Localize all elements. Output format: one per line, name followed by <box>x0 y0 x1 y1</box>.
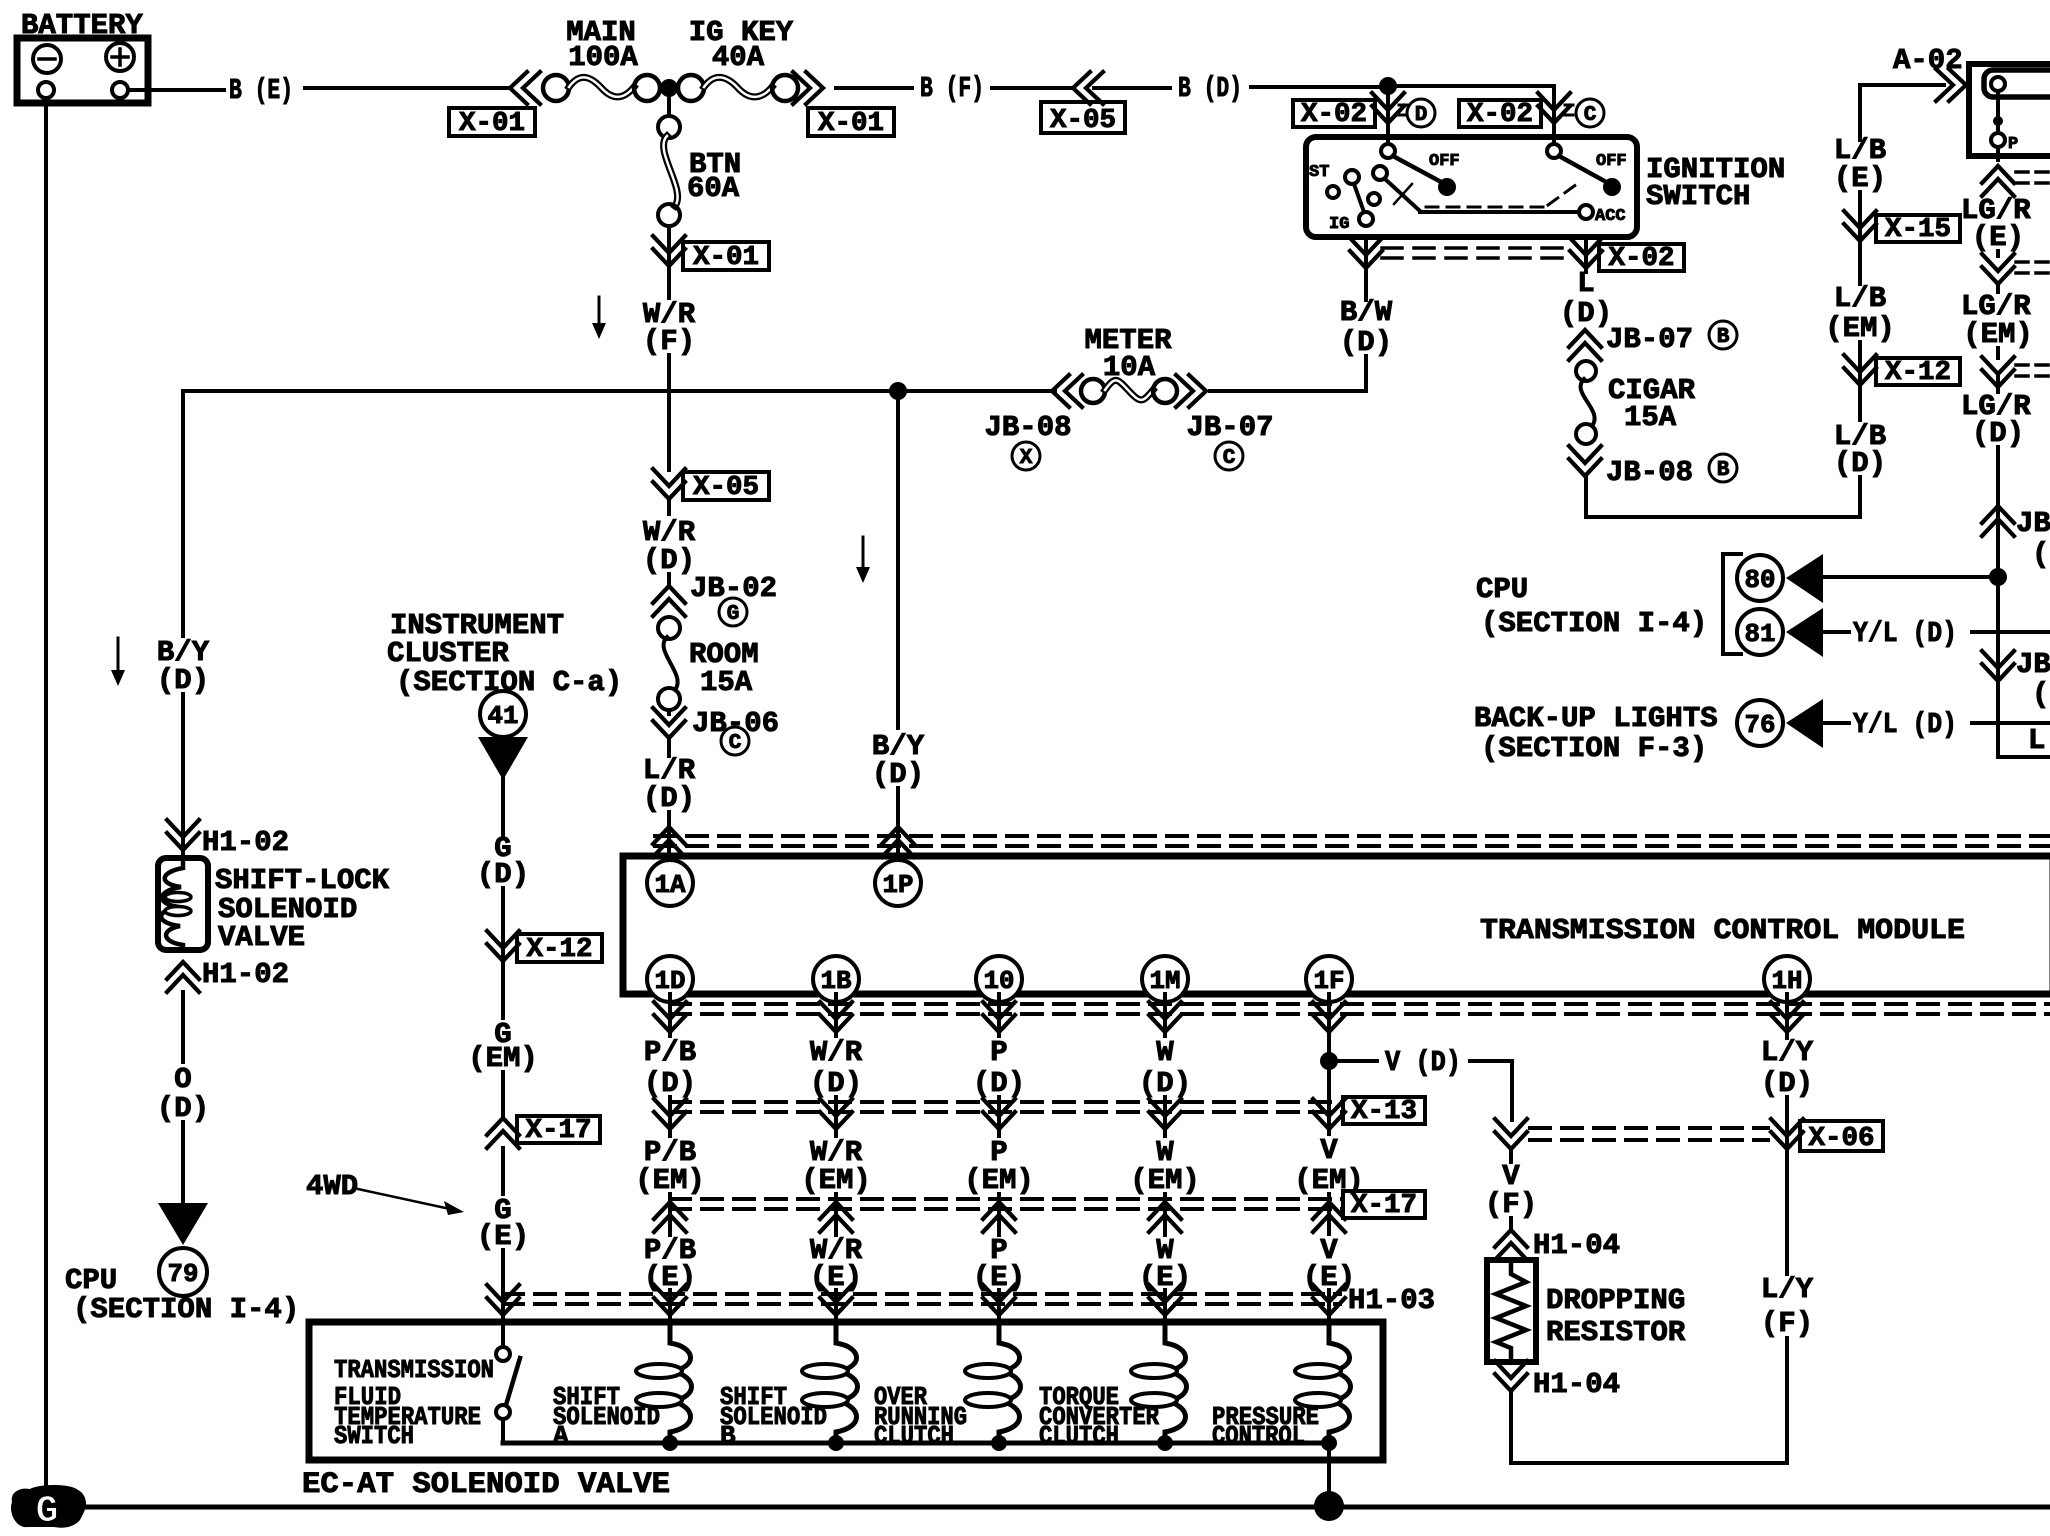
pin 1H <box>1764 956 1810 1002</box>
svg-text:X-02: X-02 <box>1301 100 1367 130</box>
svg-text:ACC: ACC <box>1595 207 1626 226</box>
wire B/Y (D) to pin 1P <box>896 391 900 856</box>
junction solenoid bus x=670 <box>662 1435 678 1451</box>
svg-text:OFF: OFF <box>1429 152 1460 171</box>
svg-text:60A: 60A <box>687 172 740 205</box>
pin 1P <box>875 860 921 906</box>
node L/B (EM) <box>1825 246 1895 345</box>
wire Y/L (D) from pin 76 <box>1823 708 2050 741</box>
arrow into pin 79 <box>158 1203 208 1245</box>
pressure control label <box>1212 1402 1319 1451</box>
svg-text:X-12: X-12 <box>527 935 593 965</box>
node V (D) <box>1385 1046 1461 1079</box>
node B/Y (D) left <box>157 636 210 697</box>
svg-text:CPU: CPU <box>1476 573 1528 606</box>
svg-text:H1-03: H1-03 <box>1348 1284 1435 1317</box>
EC-AT solenoid valve box <box>309 1322 1383 1460</box>
wire Y/L (D) from pin 81 <box>1823 617 2050 650</box>
svg-text:15A: 15A <box>700 666 753 699</box>
junction solenoid bus x=1329 <box>1321 1435 1337 1451</box>
svg-text:L: L <box>2028 724 2045 757</box>
svg-text:(: ( <box>2032 538 2049 571</box>
connector on LG/R (E) <box>1982 251 2050 284</box>
wire V (D) to dropping resistor branch <box>1470 1061 1512 1120</box>
svg-text:ST: ST <box>1309 163 1329 182</box>
svg-text:4WD: 4WD <box>306 1170 358 1203</box>
node B/W (D) <box>1340 296 1393 359</box>
battery <box>17 38 148 103</box>
svg-text:SWITCH: SWITCH <box>334 1421 414 1451</box>
connector A-02 chevron <box>1936 69 1966 101</box>
connector dashes row 4 <box>503 1294 1340 1304</box>
shift solenoid A label <box>553 1382 660 1451</box>
terminal C circled (JB-07) <box>1215 442 1243 470</box>
svg-text:H1-02: H1-02 <box>202 826 289 859</box>
svg-text:X-17: X-17 <box>526 1116 592 1146</box>
junction solenoid bus x=836 <box>828 1435 844 1451</box>
svg-text:X-01: X-01 <box>693 243 759 273</box>
svg-text:C: C <box>729 732 742 755</box>
node A-02 <box>1893 44 1963 77</box>
wire P/B column from TCM <box>635 994 705 1322</box>
ignition switch ACC contact and arm <box>1385 179 1626 226</box>
EC-AT solenoid valve label <box>302 1468 670 1502</box>
node LG/R (E) <box>1961 194 2031 254</box>
CPU section I-4 label <box>65 1264 299 1326</box>
node L/R (D) <box>643 738 696 815</box>
svg-text:1B: 1B <box>821 966 852 996</box>
solenoid common bus wire <box>503 1441 1329 1446</box>
fuse BTN 60A <box>658 88 741 226</box>
pin 10 <box>976 956 1022 1002</box>
svg-text:X-06: X-06 <box>1809 1124 1875 1154</box>
terminal D circled <box>1399 99 1435 127</box>
connector dashes row 2 <box>670 1102 1343 1112</box>
svg-text:1H: 1H <box>1772 966 1803 996</box>
svg-text:W: W <box>1156 1036 1174 1069</box>
junction ground bus <box>1314 1491 1344 1521</box>
4WD note <box>306 1170 464 1215</box>
terminal X circled (JB-08) <box>1012 442 1040 470</box>
connector H1-02 lower <box>167 958 289 992</box>
connector X-12 on G wire <box>487 888 602 965</box>
pin 1A <box>647 860 693 906</box>
connector X-02 (D side) <box>1293 86 1404 144</box>
wire pin 80 to LG/R junction <box>1823 575 1998 579</box>
node B/Y (D) right <box>872 730 925 791</box>
pin 81 <box>1737 609 1783 655</box>
svg-text:B (F): B (F) <box>920 72 984 105</box>
node W/R (D) <box>643 499 696 577</box>
svg-text:79: 79 <box>168 1259 199 1289</box>
wire O to CPU 79 <box>181 1122 185 1205</box>
terminal B circled (JB-08) <box>1709 454 1737 482</box>
svg-text:L/Y: L/Y <box>1761 1036 1814 1069</box>
svg-text:41: 41 <box>488 701 519 731</box>
svg-text:(D): (D) <box>872 758 924 791</box>
terminal P <box>1991 91 2018 160</box>
svg-text:SOLENOID: SOLENOID <box>720 1402 827 1432</box>
wire L/Y (F) down to resistor loop <box>1511 1338 1787 1463</box>
connector X-02 on ACC wire <box>1570 237 1684 274</box>
junction main fuse / BTN fuse <box>660 79 678 97</box>
battery label <box>21 9 143 42</box>
svg-text:(SECTION I-4): (SECTION I-4) <box>73 1293 299 1326</box>
node G (E) <box>477 1148 529 1253</box>
svg-text:OFF: OFF <box>1596 152 1627 171</box>
svg-text:(SECTION F-3): (SECTION F-3) <box>1481 732 1707 765</box>
connector X-17 on V wire <box>1313 1191 1425 1232</box>
fuse METER 10A <box>1081 324 1177 403</box>
connector X-15 <box>1844 192 1960 246</box>
svg-text:1D: 1D <box>655 966 686 996</box>
junction block JB upper right <box>1982 506 2050 571</box>
flow arrow W/R <box>592 297 606 339</box>
ignition switch ST contact <box>1309 163 1387 205</box>
connector X-01 on BTN wire <box>653 226 769 273</box>
svg-text:BACK-UP LIGHTS: BACK-UP LIGHTS <box>1474 702 1718 735</box>
svg-text:A: A <box>553 1421 569 1451</box>
svg-text:G: G <box>727 603 740 626</box>
svg-text:D: D <box>1415 104 1428 127</box>
svg-text:X-01: X-01 <box>459 109 525 139</box>
svg-text:B: B <box>1717 459 1730 482</box>
svg-text:X-15: X-15 <box>1885 215 1951 245</box>
junction above ignition switch <box>1379 77 1554 95</box>
ignition switch pole C to OFF <box>1547 144 1627 196</box>
svg-text:H1-02: H1-02 <box>202 958 289 991</box>
svg-text:DROPPING: DROPPING <box>1546 1284 1685 1317</box>
shift-lock solenoid valve <box>158 858 208 950</box>
wire IG terminal B/W (D) <box>1350 237 1382 391</box>
svg-text:TRANSMISSION: TRANSMISSION <box>334 1355 494 1385</box>
fuse ROOM 15A <box>658 617 759 710</box>
svg-text:76: 76 <box>1745 710 1776 740</box>
connector dashes row 3 <box>670 1199 1343 1209</box>
svg-text:V: V <box>1320 1134 1338 1167</box>
torque converter clutch coil <box>1131 1322 1187 1443</box>
node V (E) <box>1303 1234 1355 1294</box>
svg-text:X-02: X-02 <box>1467 100 1533 130</box>
wire G into EC-AT box <box>487 1250 519 1322</box>
svg-text:L: L <box>1577 267 1594 300</box>
svg-text:SOLENOID: SOLENOID <box>553 1402 660 1432</box>
svg-text:C: C <box>1584 104 1597 127</box>
ground G symbol <box>11 1485 86 1533</box>
wire horizontal bus to meter fuse <box>183 389 1366 393</box>
connector H1-02 upper <box>167 694 289 859</box>
connector H1-03 <box>1313 1284 1435 1322</box>
svg-text:G: G <box>36 1490 59 1533</box>
node L/Y (F) <box>1761 1150 1814 1340</box>
connector on V (F) branch <box>1495 1119 1527 1149</box>
pin 80 <box>1737 555 1783 601</box>
pressure control coil <box>1295 1322 1351 1443</box>
svg-text:JB-08: JB-08 <box>984 411 1071 444</box>
svg-text:P: P <box>990 1036 1007 1069</box>
shift solenoid B label <box>720 1382 827 1451</box>
svg-text:(D): (D) <box>1560 297 1612 330</box>
connector into TCM pin 1P <box>882 827 914 857</box>
junction block JB-02 G <box>653 572 777 616</box>
svg-text:JB-07: JB-07 <box>1606 323 1693 356</box>
connector dashes above TCM <box>655 836 2050 846</box>
node G (EM) <box>468 962 538 1075</box>
shift-lock solenoid valve label <box>215 864 390 954</box>
connector dashes X-06 row <box>1530 1128 1768 1140</box>
svg-text:B/W: B/W <box>1340 296 1393 329</box>
node B (E) <box>229 74 293 107</box>
svg-text:EC-AT SOLENOID VALVE: EC-AT SOLENOID VALVE <box>302 1468 670 1502</box>
svg-text:X-17: X-17 <box>1351 1191 1417 1221</box>
ground bus wire <box>80 1505 2050 1510</box>
instrument cluster label <box>387 609 622 699</box>
node L/B (D) <box>1834 390 1886 480</box>
wire G (D) <box>477 778 529 891</box>
wire battery negative to ground G <box>44 98 48 1490</box>
svg-text:JB-02: JB-02 <box>690 572 777 605</box>
connector X-01 on B(E) wire <box>449 72 540 139</box>
connector on LG/R (EM) <box>1982 348 2050 387</box>
wire B(D) <box>1094 87 1388 88</box>
svg-text:L/Y: L/Y <box>1761 1273 1814 1306</box>
svg-text:Y/L (D): Y/L (D) <box>1853 617 1957 650</box>
svg-text:(: ( <box>2032 678 2049 711</box>
svg-text:10: 10 <box>984 966 1015 996</box>
wire B(F) <box>836 86 1070 90</box>
connector H1-04 lower <box>1495 1361 1620 1401</box>
flow arrow B/Y <box>856 537 870 583</box>
arrow into pin 80 <box>1786 554 1823 603</box>
node LG/R (EM) <box>1961 284 2033 351</box>
svg-text:X-05: X-05 <box>693 473 759 503</box>
back-up lights label <box>1474 702 1718 765</box>
svg-text:X: X <box>1020 447 1033 470</box>
svg-text:40A: 40A <box>712 41 765 74</box>
connector X-01 right of IG KEY fuse <box>793 72 894 139</box>
transmission control module box <box>623 856 2050 994</box>
junction B/Y column <box>889 382 907 400</box>
wire LG/R exits right <box>1998 724 2050 757</box>
svg-text:X-01: X-01 <box>818 109 884 139</box>
svg-text:JB: JB <box>2016 648 2050 681</box>
connector dashes row 1 below TCM <box>670 1004 2050 1014</box>
dropping resistor label <box>1546 1284 1686 1349</box>
node O (D) <box>157 992 209 1125</box>
svg-text:P/B: P/B <box>644 1036 696 1069</box>
pin 1B <box>813 956 859 1002</box>
junction block JB lower right <box>1982 648 2050 711</box>
wire V column from pin 1F <box>1313 994 1345 1134</box>
CPU label <box>1476 573 1707 640</box>
svg-text:X-13: X-13 <box>1351 1097 1417 1127</box>
junction V (D) <box>1320 1052 1377 1070</box>
svg-text:B: B <box>1717 326 1730 349</box>
arrow into pin 76 <box>1786 699 1823 748</box>
svg-text:CLUTCH: CLUTCH <box>1039 1421 1119 1451</box>
over running clutch coil <box>965 1322 1021 1443</box>
svg-text:X-02: X-02 <box>1609 244 1675 274</box>
wire P column from TCM <box>964 994 1034 1322</box>
svg-text:P: P <box>2008 135 2018 154</box>
fuse CIGAR 15A <box>1576 361 1696 444</box>
svg-text:H1-04: H1-04 <box>1533 1229 1620 1262</box>
svg-text:(SECTION I-4): (SECTION I-4) <box>1481 607 1707 640</box>
svg-text:X-05: X-05 <box>1050 106 1116 136</box>
pin 1M <box>1142 956 1188 1002</box>
svg-text:TRANSMISSION CONTROL MODULE: TRANSMISSION CONTROL MODULE <box>1480 914 1965 947</box>
shift solenoid A coil <box>636 1322 692 1443</box>
connector X-13 <box>1313 1097 1425 1129</box>
component box A-02 (top right) <box>1969 64 2050 156</box>
transmission fluid temperature switch <box>496 1322 520 1443</box>
ignition switch pole D to OFF <box>1381 144 1460 196</box>
svg-text:X-12: X-12 <box>1885 358 1951 388</box>
fuse MAIN 100A <box>543 16 660 101</box>
wire resistor to L/Y loop <box>1509 1391 1513 1463</box>
node B (D) <box>1178 72 1242 105</box>
arrow from pin 41 <box>478 737 528 780</box>
svg-text:1A: 1A <box>655 870 686 900</box>
wire L/Y column from pin 1H <box>1761 994 1814 1150</box>
torque converter clutch label <box>1039 1382 1159 1451</box>
node LG/R (D) <box>1961 376 2031 450</box>
svg-text:100A: 100A <box>568 41 638 74</box>
junction block JB-08 X <box>984 375 1082 444</box>
wire cigar fuse to L/B column <box>1586 477 1860 517</box>
svg-text:80: 80 <box>1745 565 1776 595</box>
svg-text:W/R: W/R <box>810 1036 863 1069</box>
svg-text:Y/L (D): Y/L (D) <box>1853 708 1957 741</box>
svg-text:B (E): B (E) <box>229 74 293 107</box>
svg-text:CONTROL: CONTROL <box>1212 1421 1305 1451</box>
junction block JB-07 C <box>1176 375 1274 444</box>
connector X-17 on G wire <box>487 1072 600 1148</box>
node B (F) <box>920 72 984 105</box>
ignition switch IG contact <box>1329 184 1373 234</box>
svg-text:IG: IG <box>1329 215 1349 234</box>
connector X-05 on W/R wire <box>653 469 769 503</box>
pin 1F <box>1306 956 1352 1002</box>
dropping resistor <box>1487 1260 1536 1362</box>
connector dashes under ignition switch <box>1382 248 1570 258</box>
wire pressure control to ground bus <box>1327 1443 1331 1507</box>
wire A-02 horizontal <box>1860 85 1944 140</box>
transmission control module label <box>1480 914 1965 947</box>
svg-text:(D): (D) <box>1340 326 1392 359</box>
svg-text:C: C <box>1223 447 1236 470</box>
connector X-05 on B wire <box>1041 72 1125 136</box>
svg-text:B: B <box>720 1421 736 1451</box>
wire W/R column from TCM <box>801 994 871 1322</box>
shift solenoid B coil <box>802 1322 858 1443</box>
svg-text:JB-08: JB-08 <box>1606 456 1693 489</box>
terminal G circled (JB-02) <box>719 598 747 626</box>
svg-text:1P: 1P <box>883 870 914 900</box>
node W/R (F) <box>643 268 696 358</box>
pin 76 <box>1737 700 1783 746</box>
node V (EM) <box>1294 1134 1364 1234</box>
wire battery positive B(E) <box>128 88 508 90</box>
junction solenoid bus x=1165 <box>1157 1435 1173 1451</box>
connector H1-04 upper <box>1495 1218 1620 1262</box>
wire B/Y (D) left column <box>181 391 185 636</box>
svg-text:(D): (D) <box>1834 447 1886 480</box>
connector X-06 <box>1771 1119 1883 1154</box>
CPU connector bracket <box>1723 554 1741 654</box>
svg-text:(F): (F) <box>1761 1307 1813 1340</box>
pin 79 <box>159 1248 207 1296</box>
svg-text:V (D): V (D) <box>1385 1046 1461 1079</box>
connector X-02 (C side) <box>1459 86 1570 144</box>
pin 41 <box>480 691 526 737</box>
ignition switch label <box>1646 153 1785 213</box>
svg-text:JB-07: JB-07 <box>1186 411 1273 444</box>
svg-text:1M: 1M <box>1150 966 1181 996</box>
svg-text:CLUTCH: CLUTCH <box>874 1421 954 1451</box>
junction LG/R with CPU 80 wire <box>1989 568 2007 586</box>
connector into TCM pin 1A <box>653 812 685 857</box>
fuse IG KEY 40A <box>678 16 798 101</box>
node L (D) <box>1560 267 1612 330</box>
svg-text:RESISTOR: RESISTOR <box>1546 1316 1686 1349</box>
svg-text:JB: JB <box>2016 507 2050 540</box>
junction solenoid bus x=999 <box>991 1435 1007 1451</box>
transmission fluid temperature switch label <box>334 1355 494 1451</box>
node V (F) <box>1485 1149 1537 1221</box>
svg-text:1F: 1F <box>1314 966 1345 996</box>
svg-text:L/B: L/B <box>1834 282 1886 315</box>
arrow into pin 81 <box>1786 608 1823 657</box>
node L/B (E) <box>1834 134 1886 195</box>
svg-text:H1-04: H1-04 <box>1533 1368 1620 1401</box>
wire W/R crossing meter bus <box>667 355 671 470</box>
svg-text:81: 81 <box>1745 619 1776 649</box>
over running clutch label <box>874 1382 967 1451</box>
flow arrow B/Y left <box>111 638 125 686</box>
terminal C circled <box>1565 99 1604 127</box>
terminal C circled (JB-06) <box>721 727 749 755</box>
junction block JB-07 B <box>1569 323 1693 360</box>
connector below A-02 box <box>1982 166 2050 196</box>
svg-text:VALVE: VALVE <box>218 921 305 954</box>
ignition switch box <box>1306 137 1637 237</box>
junction block JB-06 C <box>653 707 779 740</box>
wire W column from TCM <box>1130 994 1200 1322</box>
terminal B circled (JB-07) <box>1709 321 1737 349</box>
svg-text:SWITCH: SWITCH <box>1646 180 1750 213</box>
junction block JB-08 B <box>1569 446 1693 489</box>
svg-text:15A: 15A <box>1624 401 1677 434</box>
svg-text:B (D): B (D) <box>1178 72 1242 105</box>
connector X-12 on L/B wire <box>1844 342 1960 390</box>
wire LG/R down <box>1996 447 2000 757</box>
pin 1D <box>647 956 693 1002</box>
